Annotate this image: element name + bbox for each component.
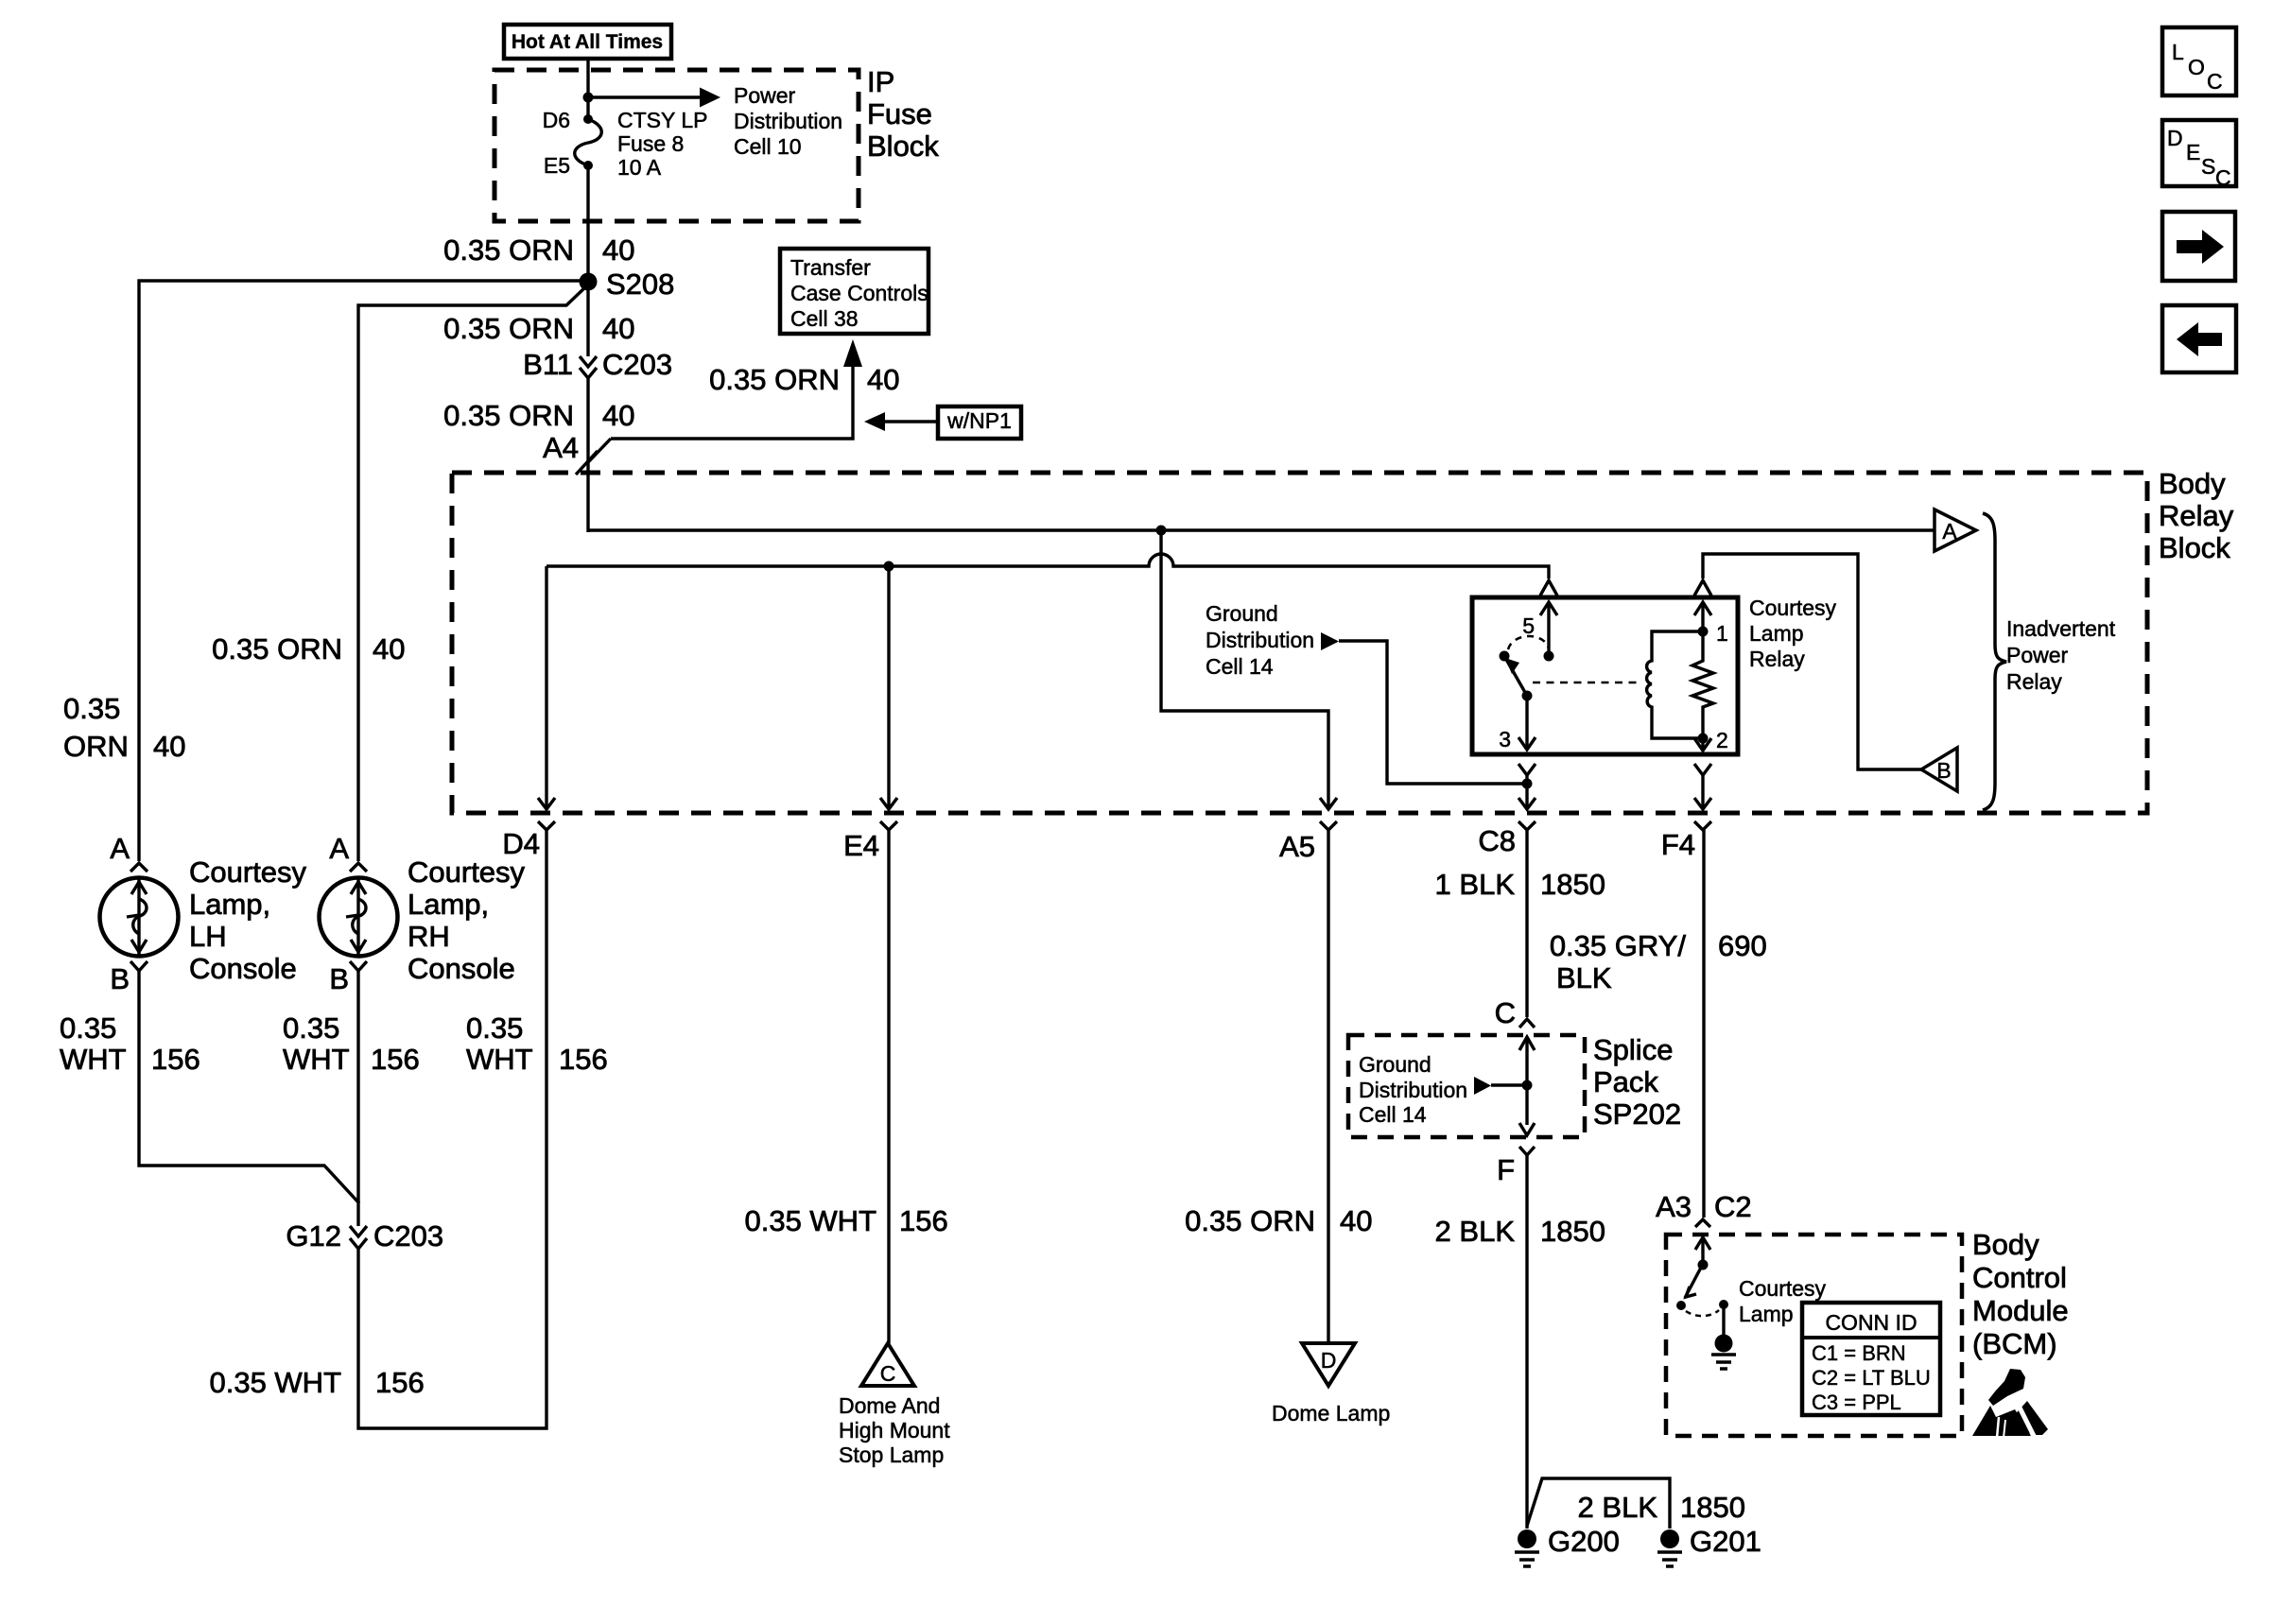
label: 1 BLK 1850 — [1435, 868, 1605, 901]
connector C203 pin G12 — [286, 1219, 443, 1253]
svg-text:Cell 38: Cell 38 — [790, 306, 859, 331]
label: 0.35 WHT 156 D4 — [466, 1011, 608, 1076]
label: 0.35 ORN 40 LH feed — [63, 692, 185, 763]
svg-text:2 BLK: 2 BLK — [1578, 1491, 1658, 1524]
svg-text:LH: LH — [189, 920, 227, 953]
svg-text:Case Controls: Case Controls — [790, 281, 928, 305]
label: Hot At All Times — [504, 25, 671, 59]
svg-text:(BCM): (BCM) — [1972, 1327, 2057, 1360]
ground G201 — [1657, 1525, 1761, 1566]
svg-text:C3 = PPL: C3 = PPL — [1812, 1391, 1901, 1414]
relay switch blade — [1500, 636, 1550, 701]
svg-text:B11: B11 — [523, 348, 573, 381]
label: w/NP1 option — [938, 406, 1021, 439]
svg-text:Courtesy: Courtesy — [189, 855, 307, 889]
svg-text:0.35 GRY/: 0.35 GRY/ — [1550, 929, 1687, 962]
wire: battery feed into fuse — [586, 59, 589, 119]
relay pin 2 internal — [1694, 728, 1728, 752]
svg-text:0.35 ORN: 0.35 ORN — [443, 233, 574, 267]
wire: relay pin 3 to C8 — [1518, 764, 1536, 809]
svg-text:Relay: Relay — [2159, 499, 2234, 532]
svg-text:Dome And: Dome And — [839, 1393, 940, 1418]
fuse F8: CTSY LP Fuse 8 10 A — [575, 108, 708, 180]
svg-text:Block: Block — [2159, 531, 2230, 564]
svg-text:Relay: Relay — [2006, 669, 2062, 694]
pin E4 — [843, 821, 897, 862]
label: 0.35 ORN 40 circuit — [709, 363, 899, 396]
svg-text:0.35 ORN: 0.35 ORN — [443, 312, 574, 345]
wire: branch to G201 — [1527, 1478, 1670, 1529]
svg-text:A: A — [110, 832, 130, 865]
svg-text:C: C — [2215, 165, 2231, 190]
svg-text:0.35 ORN: 0.35 ORN — [709, 363, 840, 396]
button: next arrow — [2162, 212, 2235, 281]
svg-text:G200: G200 — [1548, 1525, 1620, 1558]
node: bus junction — [1156, 526, 1167, 536]
table: CONN ID — [1802, 1303, 1940, 1415]
svg-text:Console: Console — [408, 952, 515, 985]
svg-text:C: C — [2207, 69, 2223, 94]
wire: relay pin 1 to inadvertent power relay B — [1703, 554, 1923, 769]
wire: S208 down to C203 — [586, 290, 589, 356]
label: 0.35 WHT 156 E4 — [744, 1204, 947, 1237]
pin E5 — [544, 153, 593, 178]
svg-text:WHT: WHT — [60, 1043, 127, 1076]
svg-text:Body: Body — [1972, 1228, 2039, 1261]
body relay block dashed box — [452, 467, 2234, 813]
svg-text:0.35 ORN: 0.35 ORN — [1185, 1204, 1315, 1237]
pin A3 connector C2 — [1656, 1190, 1752, 1227]
relay pin 3 internal — [1499, 696, 1536, 752]
wire: LH lamp return — [139, 971, 359, 1203]
svg-text:WHT: WHT — [466, 1043, 533, 1076]
label: Ground Distribution Cell 14 in relay block — [1206, 601, 1339, 679]
pin A5 — [1279, 821, 1337, 863]
svg-text:Lamp,: Lamp, — [408, 888, 489, 921]
svg-text:Stop Lamp: Stop Lamp — [839, 1443, 944, 1467]
svg-text:Lamp,: Lamp, — [189, 888, 270, 921]
svg-text:RH: RH — [408, 920, 450, 953]
svg-text:0.35 ORN: 0.35 ORN — [443, 399, 574, 432]
fuse block: IP Fuse Block dashed box — [495, 65, 939, 221]
svg-text:A5: A5 — [1279, 830, 1315, 863]
node: bus junction E4 — [884, 561, 894, 572]
svg-text:ORN: ORN — [63, 730, 129, 763]
svg-text:1850: 1850 — [1540, 1215, 1605, 1248]
svg-text:Distribution: Distribution — [1206, 628, 1314, 652]
svg-text:G12: G12 — [286, 1219, 341, 1253]
wire: S208 to RH courtesy lamp — [358, 286, 586, 861]
svg-text:C203: C203 — [373, 1219, 443, 1253]
svg-text:Control: Control — [1972, 1261, 2067, 1294]
node: fuse feed junction — [583, 93, 594, 103]
svg-text:BLK: BLK — [1556, 961, 1612, 994]
lamp: courtesy lamp LH console — [100, 832, 307, 995]
svg-text:156: 156 — [371, 1043, 420, 1076]
svg-text:Courtesy: Courtesy — [1739, 1276, 1827, 1301]
pin F4 — [1661, 821, 1711, 861]
svg-text:Ground: Ground — [1359, 1052, 1431, 1077]
wire: C8 to splice pack — [1525, 830, 1528, 1017]
svg-text:B: B — [329, 962, 349, 995]
svg-text:Lamp: Lamp — [1749, 621, 1804, 646]
svg-text:156: 156 — [151, 1043, 200, 1076]
svg-text:D: D — [2167, 126, 2183, 150]
svg-text:Cell 14: Cell 14 — [1359, 1102, 1427, 1127]
node S208 splice — [580, 268, 675, 301]
svg-text:F4: F4 — [1661, 828, 1695, 861]
svg-text:1 BLK: 1 BLK — [1435, 868, 1516, 901]
svg-text:E: E — [2186, 140, 2200, 164]
svg-text:A3: A3 — [1656, 1190, 1692, 1223]
relay resistor — [1692, 631, 1713, 738]
wire: fuse output to S208 — [586, 165, 589, 274]
svg-text:S: S — [2201, 154, 2215, 179]
svg-text:0.35: 0.35 — [63, 692, 120, 725]
svg-text:0.35 WHT: 0.35 WHT — [209, 1366, 341, 1399]
label: 0.35 ORN 40 circuit — [443, 399, 634, 432]
label: Ground Distribution Cell 14 in splice pack — [1359, 1052, 1522, 1127]
svg-text:10 A: 10 A — [617, 155, 662, 180]
pin 1 connector chevron — [1694, 580, 1711, 596]
brace: inadvertent power relay — [1983, 513, 2116, 810]
svg-text:Dome Lamp: Dome Lamp — [1272, 1401, 1390, 1425]
svg-text:Courtesy: Courtesy — [1749, 596, 1837, 620]
icon: ESD symbol — [1972, 1369, 2048, 1438]
svg-text:B: B — [110, 962, 130, 995]
svg-text:E4: E4 — [843, 829, 879, 862]
svg-text:Lamp: Lamp — [1739, 1302, 1794, 1326]
wire: lamp feed bus to relay pin 5 with hop — [547, 554, 1549, 579]
svg-text:CTSY LP: CTSY LP — [617, 108, 707, 132]
svg-text:40: 40 — [867, 363, 899, 396]
svg-text:G201: G201 — [1690, 1525, 1761, 1558]
label: 0.35 WHT 156 LH — [60, 1011, 200, 1076]
svg-text:Fuse: Fuse — [867, 97, 932, 130]
label: Transfer Case Controls Cell 38 — [780, 249, 928, 334]
svg-text:C2: C2 — [1714, 1190, 1752, 1223]
svg-text:C8: C8 — [1478, 824, 1516, 857]
svg-text:E5: E5 — [544, 153, 570, 178]
wire: arrow to Power Distribution Cell 10 — [588, 83, 842, 159]
svg-text:L: L — [2172, 40, 2184, 64]
svg-text:Transfer: Transfer — [790, 255, 871, 280]
svg-text:Ground: Ground — [1206, 601, 1278, 626]
triangle D: dome lamp — [1272, 1343, 1390, 1425]
connector C203 pin B11 — [523, 348, 672, 381]
wire: bus drop to E4 — [880, 566, 897, 809]
wire: bus drop to D4 — [538, 566, 555, 809]
svg-text:S208: S208 — [606, 268, 674, 301]
wire: F4 to BCM — [1702, 830, 1705, 1218]
svg-text:156: 156 — [559, 1043, 608, 1076]
svg-text:Fuse 8: Fuse 8 — [617, 131, 684, 156]
svg-text:Relay: Relay — [1749, 647, 1805, 671]
pin C8 — [1478, 821, 1536, 857]
svg-text:F: F — [1497, 1153, 1515, 1186]
triangle A: inadvertent power relay output — [1935, 510, 1976, 551]
wire: splice internal — [1519, 1037, 1535, 1135]
svg-text:C: C — [1495, 996, 1516, 1029]
wire: RH lamp return to C203 — [356, 971, 359, 1226]
svg-text:A: A — [1942, 519, 1957, 544]
svg-text:D: D — [1321, 1348, 1337, 1373]
wire: arrow into Transfer Case Controls — [843, 339, 862, 367]
svg-text:2 BLK: 2 BLK — [1435, 1215, 1516, 1248]
svg-text:Hot At All Times: Hot At All Times — [512, 31, 663, 53]
label: 0.35 GRY/BLK 690 — [1550, 929, 1767, 994]
svg-text:C203: C203 — [602, 348, 672, 381]
pin C splice pack — [1495, 996, 1535, 1029]
svg-text:40: 40 — [602, 399, 634, 432]
label: 0.35 ORN 40 circuit — [443, 312, 634, 345]
wire: A5 to dome lamp — [1327, 830, 1329, 1343]
svg-text:Distribution: Distribution — [1359, 1078, 1467, 1102]
BCM courtesy lamp switch — [1676, 1237, 1827, 1326]
svg-text:C2 = LT BLU: C2 = LT BLU — [1812, 1366, 1931, 1390]
pin F splice pack — [1497, 1147, 1535, 1186]
pin D4 — [502, 821, 555, 860]
BCM internal lamp to ground — [1711, 1304, 1736, 1369]
svg-text:Pack: Pack — [1593, 1065, 1658, 1098]
label: 0.35 WHT 156 G12 — [209, 1366, 424, 1399]
triangle C: dome and high mount stop lamp — [839, 1343, 950, 1467]
wire: splice pack F to G200 — [1525, 1155, 1528, 1529]
label: 0.35 ORN 40 circuit — [443, 233, 634, 267]
label: 2 BLK 1850 G201 branch — [1578, 1491, 1745, 1524]
svg-text:1850: 1850 — [1680, 1491, 1745, 1524]
svg-text:2: 2 — [1716, 728, 1728, 752]
lamp: courtesy lamp RH console — [320, 832, 526, 995]
svg-text:CONN ID: CONN ID — [1825, 1310, 1917, 1335]
svg-text:40: 40 — [1340, 1204, 1372, 1237]
svg-text:0.35 WHT: 0.35 WHT — [744, 1204, 876, 1237]
relay coil — [1647, 631, 1703, 738]
wire: S208 to LH courtesy lamp — [139, 281, 588, 861]
wire: ground distribution to pin 3 node — [1339, 641, 1522, 784]
wire: relay pin 2 to F4 — [1694, 764, 1711, 809]
svg-text:Console: Console — [189, 952, 297, 985]
svg-text:40: 40 — [373, 632, 405, 665]
svg-text:Power: Power — [734, 83, 796, 108]
label: 0.35 ORN 40 RH feed — [212, 632, 405, 665]
svg-text:Inadvertent: Inadvertent — [2006, 616, 2116, 641]
wire: feed drop to A5 — [1161, 530, 1337, 809]
svg-text:Splice: Splice — [1593, 1033, 1673, 1066]
svg-text:C1 = BRN: C1 = BRN — [1812, 1341, 1906, 1365]
wire: w/NP1 arrow — [864, 412, 936, 431]
svg-text:Module: Module — [1972, 1294, 2069, 1327]
svg-text:1: 1 — [1716, 621, 1728, 646]
svg-text:40: 40 — [153, 730, 185, 763]
pin D6 — [543, 108, 593, 132]
svg-text:0.35 ORN: 0.35 ORN — [212, 632, 342, 665]
wire: C203 return joining D4 branch — [358, 830, 547, 1428]
svg-text:Cell 10: Cell 10 — [734, 134, 802, 159]
BCM dashed box — [1666, 1228, 2069, 1436]
svg-text:A: A — [329, 832, 349, 865]
svg-text:WHT: WHT — [283, 1043, 350, 1076]
svg-text:Block: Block — [867, 130, 939, 163]
svg-text:1850: 1850 — [1540, 868, 1605, 901]
svg-text:SP202: SP202 — [1593, 1097, 1681, 1131]
svg-text:156: 156 — [375, 1366, 425, 1399]
relay pin 5 internal — [1522, 602, 1557, 662]
svg-text:3: 3 — [1499, 727, 1511, 752]
button: DESC — [2162, 120, 2236, 190]
relay K: courtesy lamp relay box — [1472, 596, 1837, 754]
svg-text:D6: D6 — [543, 108, 570, 132]
label: 0.35 WHT 156 RH — [283, 1011, 420, 1076]
svg-text:Body: Body — [2159, 467, 2226, 500]
wire: A4 tap to transfer case controls — [611, 367, 853, 439]
svg-text:High Mount: High Mount — [839, 1418, 950, 1443]
pin 5 connector chevron — [1540, 580, 1557, 596]
svg-text:B: B — [1936, 758, 1951, 783]
svg-text:w/NP1: w/NP1 — [946, 408, 1012, 433]
button: LOC — [2162, 27, 2236, 95]
wire: feed bus to inadvertent power relay A — [588, 528, 1935, 531]
splice pack SP202 dashed box — [1348, 1033, 1681, 1137]
svg-text:Distribution: Distribution — [734, 109, 842, 133]
triangle B: inadvertent power relay input — [1921, 748, 1957, 791]
svg-text:Courtesy: Courtesy — [408, 855, 526, 889]
svg-text:690: 690 — [1718, 929, 1767, 962]
svg-text:O: O — [2188, 55, 2205, 79]
svg-text:C: C — [880, 1361, 896, 1386]
relay pin 1 internal — [1694, 602, 1728, 646]
label: 2 BLK 1850 — [1435, 1215, 1605, 1248]
svg-text:0.35: 0.35 — [283, 1011, 339, 1045]
svg-text:156: 156 — [899, 1204, 948, 1237]
svg-text:Power: Power — [2006, 643, 2069, 667]
svg-text:IP: IP — [867, 65, 894, 98]
svg-text:0.35: 0.35 — [60, 1011, 116, 1045]
svg-text:40: 40 — [602, 233, 634, 267]
svg-text:0.35: 0.35 — [466, 1011, 523, 1045]
svg-text:Cell 14: Cell 14 — [1206, 654, 1274, 679]
svg-text:A4: A4 — [543, 431, 579, 464]
pin A4 connector — [543, 431, 611, 475]
button: back arrow — [2162, 305, 2236, 372]
ground G200 — [1515, 1525, 1620, 1566]
label: 0.35 ORN 40 A5 — [1185, 1204, 1372, 1237]
wire: C203 to A4 body relay block — [586, 378, 589, 532]
wire: E4 to dome and high mount stop lamp — [887, 830, 890, 1343]
svg-text:5: 5 — [1522, 613, 1535, 638]
svg-text:40: 40 — [602, 312, 634, 345]
link: coil to contact dashed — [1533, 682, 1642, 684]
